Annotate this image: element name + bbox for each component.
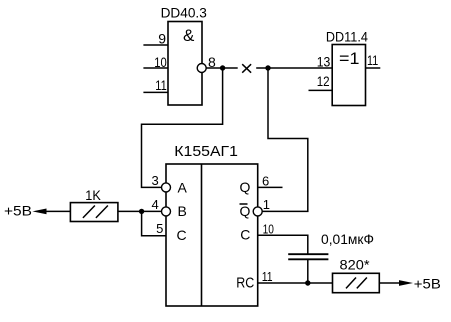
svg-text:6: 6 [262, 173, 269, 188]
svg-text:A: A [178, 180, 188, 196]
svg-text:820*: 820* [340, 258, 371, 273]
svg-text:=1: =1 [339, 50, 359, 68]
svg-text:8: 8 [208, 54, 216, 70]
svg-text:10: 10 [263, 221, 274, 236]
svg-text:11: 11 [262, 269, 273, 284]
svg-text:C: C [177, 227, 187, 243]
svg-text:B: B [178, 203, 187, 219]
svg-text:&: & [183, 26, 195, 45]
svg-text:13: 13 [317, 54, 331, 70]
svg-text:11: 11 [155, 77, 167, 93]
svg-text:DD40.3: DD40.3 [161, 5, 207, 21]
svg-text:9: 9 [158, 30, 166, 46]
svg-text:1K: 1K [85, 188, 101, 203]
svg-text:4: 4 [151, 197, 158, 212]
svg-text:Q: Q [240, 179, 251, 195]
svg-text:11: 11 [367, 52, 378, 68]
svg-text:1: 1 [263, 197, 270, 212]
svg-text:+5В: +5В [4, 203, 32, 219]
svg-text:+5В: +5В [414, 276, 441, 292]
svg-text:10: 10 [154, 54, 167, 70]
svg-text:3: 3 [151, 173, 158, 188]
svg-text:0,01мкФ: 0,01мкФ [321, 232, 374, 247]
svg-text:5: 5 [156, 221, 163, 236]
svg-text:К155АГ1: К155АГ1 [174, 143, 238, 160]
svg-text:12: 12 [317, 73, 330, 89]
svg-text:RC: RC [236, 274, 254, 291]
svg-text:C: C [240, 227, 250, 243]
svg-text:Q: Q [240, 203, 251, 219]
svg-text:DD11.4: DD11.4 [326, 28, 368, 44]
